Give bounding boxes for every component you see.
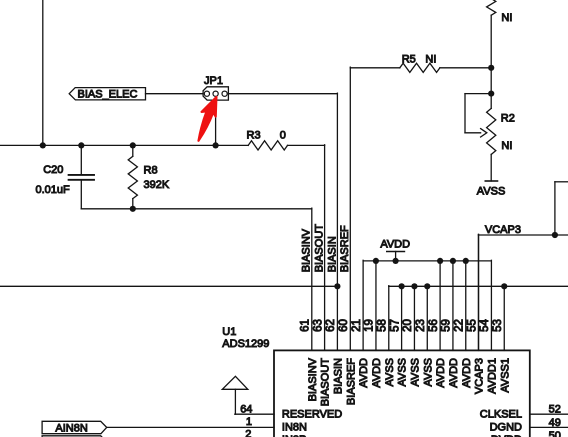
svg-text:62: 62 bbox=[325, 319, 337, 332]
svg-text:63: 63 bbox=[312, 319, 324, 332]
svg-text:C20: C20 bbox=[43, 164, 63, 176]
wire R2 wiper loop bbox=[465, 93, 491, 95]
wire VCAP3 branch up bbox=[554, 182, 556, 235]
svg-text:AVDD: AVDD bbox=[358, 358, 370, 388]
wire BIASOUT vertical to pin 63 bbox=[324, 145, 326, 351]
op-amp U1 ADS1299 body bbox=[274, 350, 530, 437]
wire pin 21 vertical bbox=[362, 260, 364, 350]
wire pin 23 vertical bbox=[426, 286, 428, 351]
wiper arrow of R2 bbox=[481, 129, 487, 137]
node junction BIASIN / left net wire bbox=[334, 283, 340, 289]
svg-text:AVSS: AVSS bbox=[477, 186, 506, 198]
svg-text:NI: NI bbox=[501, 12, 512, 24]
svg-text:BIASINV: BIASINV bbox=[307, 357, 319, 401]
svg-text:BIASINV: BIASINV bbox=[301, 228, 313, 272]
node junction AVDD pin 56 bbox=[437, 258, 443, 264]
node junction R8 bottom bbox=[130, 206, 136, 212]
resistor NI top (partial) bbox=[487, 0, 496, 15]
svg-text:AIN8N: AIN8N bbox=[55, 423, 87, 435]
svg-text:50: 50 bbox=[549, 430, 561, 437]
wire VCAP3 rail bbox=[478, 234, 568, 236]
svg-text:R3: R3 bbox=[247, 129, 261, 141]
svg-text:19: 19 bbox=[364, 319, 376, 332]
wire pin 58 vertical bbox=[388, 286, 390, 351]
net flag BIAS_ELEC bbox=[69, 88, 145, 100]
node junction AVSS pin 57 bbox=[399, 283, 405, 289]
wire AVSS rail bbox=[389, 285, 568, 287]
node junction main rail / top-left wire bbox=[40, 142, 46, 148]
svg-text:ADS1299: ADS1299 bbox=[222, 338, 269, 350]
node junction AVSS pin 20 bbox=[411, 283, 417, 289]
wire pin 49 stub bbox=[530, 426, 568, 428]
svg-text:0: 0 bbox=[280, 129, 286, 141]
wire pin 53 vertical bbox=[503, 286, 505, 351]
wire VCAP3 vertical to pin 55 bbox=[477, 234, 479, 350]
svg-text:392K: 392K bbox=[144, 179, 170, 191]
wire R5 rail left segment bbox=[350, 67, 400, 69]
power AVSS bar bbox=[485, 180, 497, 182]
svg-text:61: 61 bbox=[300, 319, 312, 332]
svg-text:AVDD: AVDD bbox=[371, 358, 383, 388]
svg-text:R2: R2 bbox=[501, 112, 515, 124]
wire pin 54 vertical bbox=[490, 260, 492, 350]
wire pin 55 vertical bbox=[478, 234, 480, 350]
power AVDD symbol bbox=[387, 251, 405, 253]
svg-text:57: 57 bbox=[389, 319, 401, 332]
net flag AIN8P (clipped) bbox=[42, 436, 107, 437]
node junction R5 / vertical bbox=[488, 65, 494, 71]
node junction AVSS pin 23 bbox=[424, 283, 430, 289]
node junction C20 top bbox=[78, 142, 84, 148]
wire BIAS_ELEC to JP1 bbox=[146, 93, 204, 95]
node junction R2 top bbox=[488, 91, 494, 97]
svg-text:R5: R5 bbox=[402, 54, 416, 66]
wire left net horizontal bbox=[0, 285, 337, 287]
svg-text:49: 49 bbox=[549, 417, 561, 429]
potentiometer R2 bbox=[490, 94, 492, 109]
wire JP1 center pin drop bbox=[215, 100, 217, 145]
svg-text:BIAS_ELEC: BIAS_ELEC bbox=[78, 88, 138, 100]
svg-text:VCAP3: VCAP3 bbox=[474, 358, 486, 394]
svg-text:RESERVED: RESERVED bbox=[282, 409, 342, 421]
svg-text:AVSS: AVSS bbox=[397, 358, 409, 387]
wire pin 59 vertical bbox=[452, 260, 454, 350]
wire pin 52 stub bbox=[530, 413, 568, 415]
node junction AVDD stub bbox=[393, 258, 399, 264]
svg-text:AVSS: AVSS bbox=[409, 358, 421, 387]
resistor R5 bbox=[400, 63, 440, 72]
svg-text:JP1: JP1 bbox=[204, 75, 223, 87]
svg-text:AVSS1: AVSS1 bbox=[499, 358, 511, 393]
svg-text:59: 59 bbox=[441, 319, 453, 332]
svg-text:54: 54 bbox=[479, 319, 491, 332]
svg-text:AVDD: AVDD bbox=[448, 358, 460, 388]
svg-text:BIASIN: BIASIN bbox=[332, 358, 344, 394]
svg-text:1: 1 bbox=[246, 416, 252, 428]
svg-text:AVSS: AVSS bbox=[422, 358, 434, 387]
svg-text:AVDD: AVDD bbox=[461, 358, 473, 388]
svg-text:AVDD: AVDD bbox=[380, 238, 410, 250]
svg-text:56: 56 bbox=[428, 319, 440, 332]
svg-text:BIASIN: BIASIN bbox=[326, 236, 338, 272]
wire R3 to BIASOUT corner bbox=[288, 144, 325, 146]
svg-text:55: 55 bbox=[466, 319, 478, 332]
svg-text:53: 53 bbox=[492, 319, 504, 332]
svg-text:U1: U1 bbox=[222, 326, 236, 338]
svg-text:DGND: DGND bbox=[490, 421, 522, 433]
jumper JP1 bbox=[203, 87, 228, 100]
wire vertical top-left bbox=[42, 0, 44, 145]
wire pin 64 stub bbox=[235, 413, 274, 415]
svg-text:52: 52 bbox=[549, 404, 561, 416]
svg-text:0.01uF: 0.01uF bbox=[36, 184, 71, 196]
capacitor C20 bbox=[80, 145, 82, 174]
wire bottom rail bbox=[81, 208, 311, 210]
power symbol pin 64 triangle bbox=[222, 376, 248, 389]
wire JP1 right to BIASIN bbox=[228, 93, 337, 95]
svg-text:23: 23 bbox=[415, 319, 427, 332]
svg-text:22: 22 bbox=[453, 319, 465, 332]
svg-text:21: 21 bbox=[351, 319, 363, 332]
node junction AVDD pin 22 bbox=[463, 258, 469, 264]
svg-text:BIASREF: BIASREF bbox=[339, 225, 351, 272]
annotation red arrow pointing at JP1 bbox=[199, 97, 217, 141]
wire R5 to top-right node bbox=[440, 67, 491, 69]
node junction AVSS pin 53 bbox=[501, 283, 507, 289]
svg-text:BIASOUT: BIASOUT bbox=[320, 358, 332, 407]
resistor R8 bbox=[132, 145, 134, 156]
svg-text:AVDD1: AVDD1 bbox=[486, 358, 498, 394]
wire pin 19 vertical bbox=[375, 260, 377, 350]
svg-text:AVDD: AVDD bbox=[435, 358, 447, 388]
svg-text:AVSS: AVSS bbox=[384, 358, 396, 387]
wire pin 22 vertical bbox=[465, 260, 467, 350]
wire main horizontal rail bbox=[0, 144, 248, 146]
svg-text:20: 20 bbox=[402, 319, 414, 332]
wire BIASIN vertical to pin 62 bbox=[336, 93, 338, 350]
wire pin 56 vertical bbox=[439, 260, 441, 350]
wire AVDD rail bbox=[363, 260, 491, 262]
svg-text:IN8N: IN8N bbox=[282, 421, 307, 433]
svg-text:NI: NI bbox=[501, 140, 512, 152]
wire pin 57 vertical bbox=[401, 286, 403, 351]
wire BIASINV vertical to pin 61 bbox=[311, 208, 313, 350]
svg-text:58: 58 bbox=[376, 319, 388, 332]
wire pin 20 vertical bbox=[413, 286, 415, 351]
wire VCAP3 branch right bbox=[555, 181, 568, 183]
wire BIASREF vertical to pin 60 bbox=[349, 67, 351, 350]
net flag AIN8N bbox=[42, 421, 107, 433]
svg-text:VCAP3: VCAP3 bbox=[485, 224, 521, 236]
svg-text:CLKSEL: CLKSEL bbox=[480, 409, 522, 421]
svg-text:NI: NI bbox=[425, 54, 436, 66]
node junction JP1 center drop bbox=[213, 142, 219, 148]
wire top-right vertical bbox=[490, 15, 492, 93]
svg-text:BIASOUT: BIASOUT bbox=[313, 224, 325, 273]
resistor R3 bbox=[248, 141, 287, 150]
svg-text:2: 2 bbox=[245, 429, 251, 437]
svg-text:R8: R8 bbox=[144, 164, 158, 176]
svg-text:60: 60 bbox=[338, 319, 350, 332]
node junction VCAP3 branch bbox=[552, 232, 558, 238]
node junction AVDD pin 59 bbox=[450, 258, 456, 264]
wire pin 1 bbox=[107, 426, 274, 428]
svg-text:BIASREF: BIASREF bbox=[345, 358, 357, 405]
svg-text:64: 64 bbox=[240, 404, 252, 416]
node junction R8 top bbox=[130, 142, 136, 148]
node junction AVDD pin 19 bbox=[373, 258, 379, 264]
